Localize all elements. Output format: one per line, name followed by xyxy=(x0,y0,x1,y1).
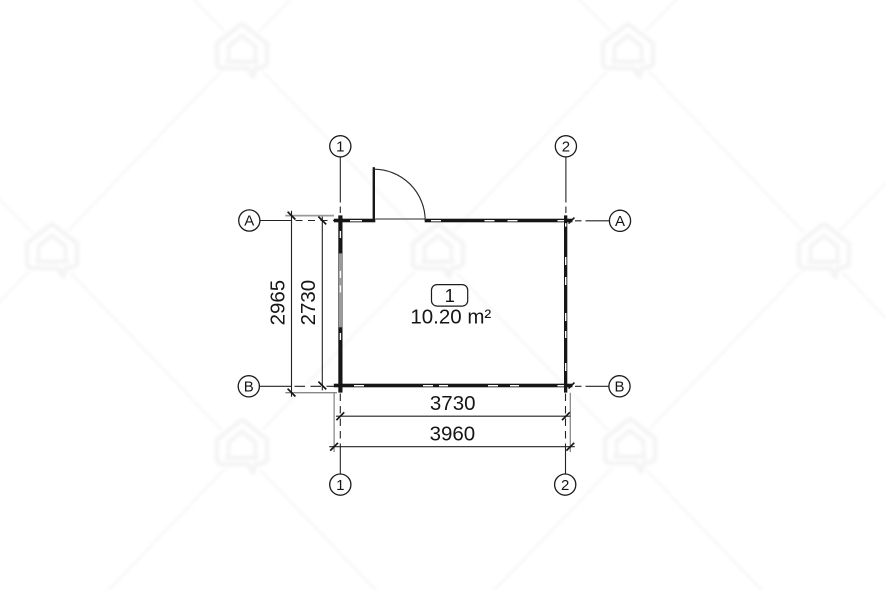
extension line 3960 right xyxy=(569,393,571,452)
svg-text:1: 1 xyxy=(336,477,344,494)
wall top xyxy=(334,219,573,223)
grid line B left segment xyxy=(260,385,339,387)
svg-text:10.20 m²: 10.20 m² xyxy=(410,306,491,329)
door swing arc xyxy=(374,169,425,220)
room number box xyxy=(432,285,468,307)
door threshold line xyxy=(375,218,424,220)
extension line roof overhang bottom xyxy=(285,392,337,394)
door leaf xyxy=(373,167,375,220)
wall bottom white dashes xyxy=(354,385,565,386)
svg-text:3730: 3730 xyxy=(430,392,476,415)
grid bubble 2 top xyxy=(555,136,576,157)
dimension 2730 xyxy=(297,217,326,391)
wall end tick bottom right xyxy=(569,383,575,389)
svg-text:A: A xyxy=(244,213,254,230)
dimension 2965 xyxy=(266,211,295,397)
grid bubble 2 bottom xyxy=(555,474,576,495)
grid line 2 lower segment xyxy=(565,394,567,474)
svg-text:2: 2 xyxy=(561,477,569,494)
grid line 1 lower segment xyxy=(339,394,341,474)
grid line B right segment xyxy=(575,385,609,387)
grid line 2 upper segment xyxy=(565,157,567,213)
dimension 3960 xyxy=(329,422,575,450)
svg-text:B: B xyxy=(244,378,254,395)
wall bottom xyxy=(334,384,573,388)
svg-text:3960: 3960 xyxy=(430,422,476,445)
grid line A right segment xyxy=(575,220,609,222)
svg-text:A: A xyxy=(615,213,625,230)
grid bubble A right xyxy=(609,210,630,231)
wall left white dashes xyxy=(340,231,341,340)
extension line 3960 left xyxy=(333,393,335,452)
dimension 3730 xyxy=(336,392,570,420)
svg-text:B: B xyxy=(614,378,624,395)
svg-text:2730: 2730 xyxy=(297,280,320,326)
wall right white dashes xyxy=(565,223,566,371)
svg-text:2: 2 xyxy=(562,138,570,155)
grid bubble 1 top xyxy=(330,136,351,157)
watermark house icons xyxy=(27,24,849,473)
grid line 1 upper segment xyxy=(339,157,341,213)
svg-text:2965: 2965 xyxy=(266,280,289,326)
wall left xyxy=(338,215,342,392)
extension line roof overhang top xyxy=(285,215,334,217)
wall right xyxy=(564,215,567,392)
grid bubble B left xyxy=(238,376,259,397)
grid bubble A left xyxy=(239,210,260,231)
svg-text:1: 1 xyxy=(336,138,344,155)
grid bubble B right xyxy=(609,376,630,397)
grid line A left segment xyxy=(260,220,338,222)
svg-text:1: 1 xyxy=(445,285,455,306)
grid bubble 1 bottom xyxy=(330,474,351,495)
wall top white dashes xyxy=(350,220,565,221)
wall end tick top right xyxy=(569,218,575,224)
